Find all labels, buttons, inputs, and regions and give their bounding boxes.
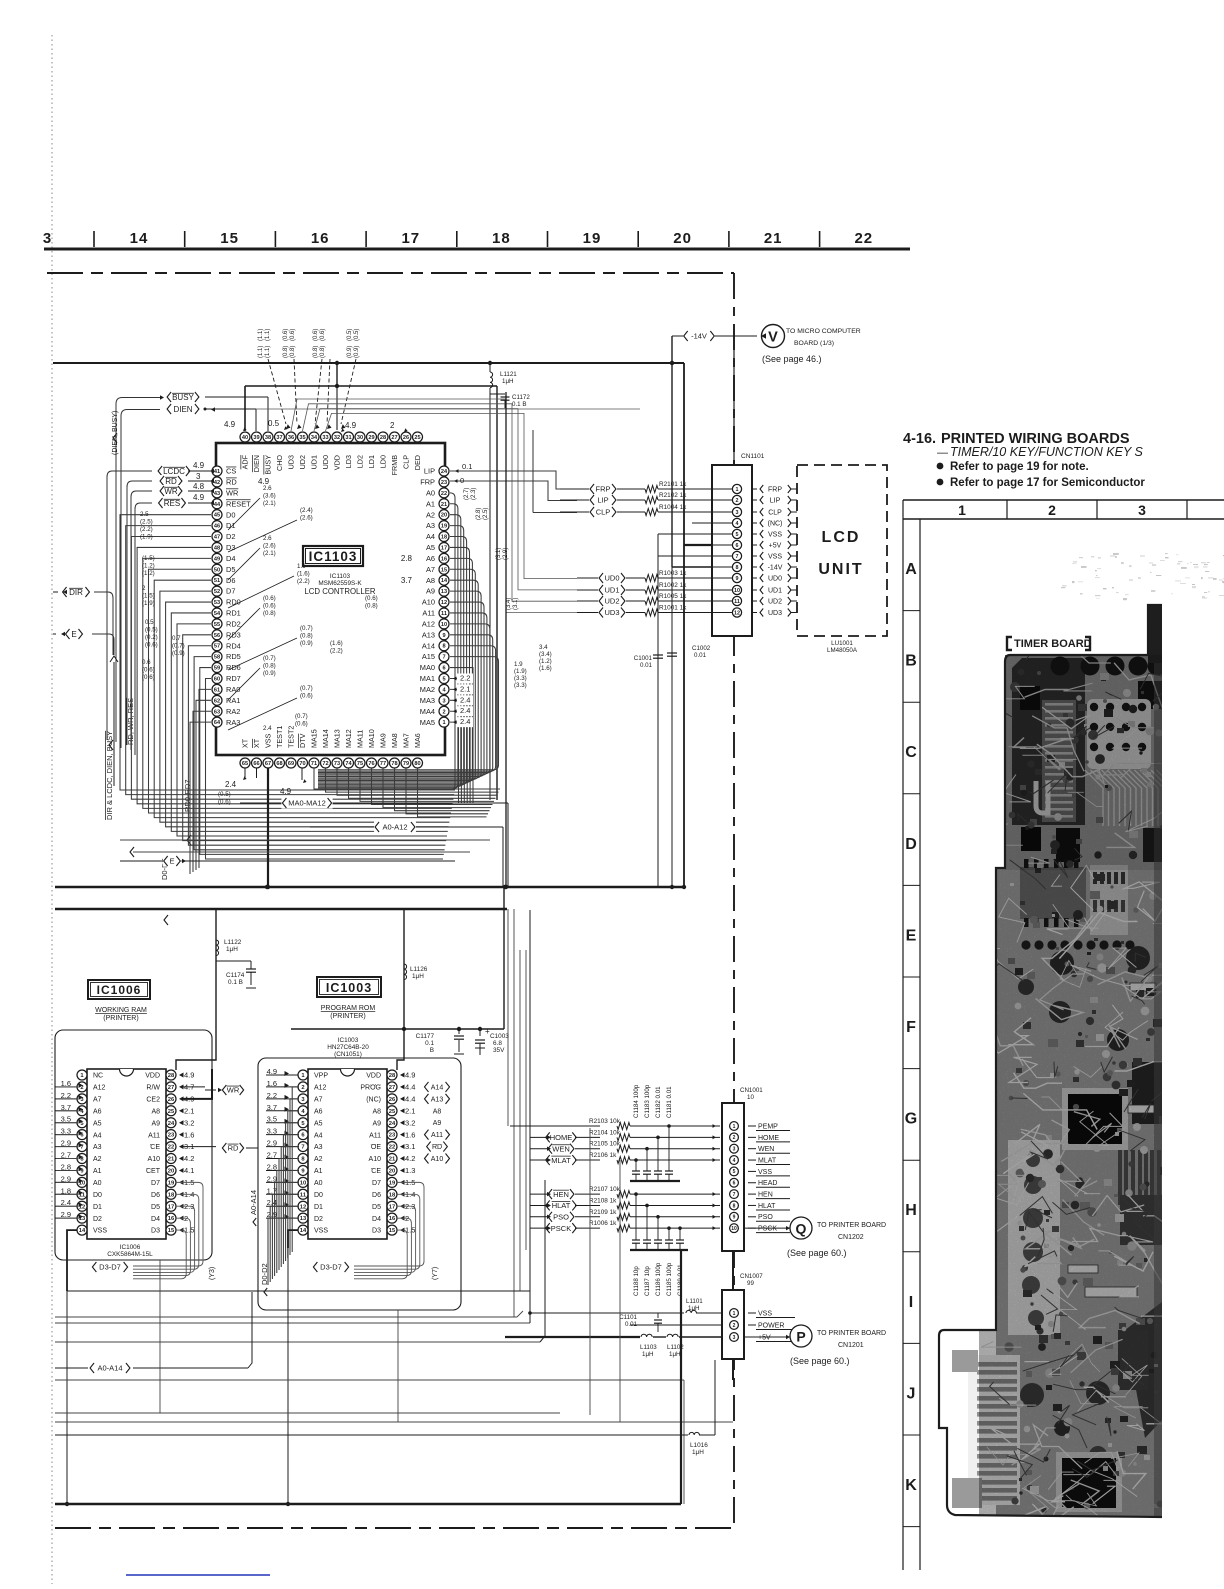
svg-text:UD0: UD0 bbox=[604, 574, 619, 583]
svg-text:3.7: 3.7 bbox=[401, 576, 413, 585]
svg-text:WR: WR bbox=[164, 487, 178, 496]
svg-text:LCD: LCD bbox=[822, 529, 861, 546]
svg-text:ADF: ADF bbox=[241, 454, 250, 469]
svg-text:UD3: UD3 bbox=[604, 608, 619, 617]
svg-text:D4: D4 bbox=[372, 1216, 381, 1223]
svg-text:C1182 0.01: C1182 0.01 bbox=[655, 1086, 662, 1118]
svg-text:MA2: MA2 bbox=[420, 685, 435, 694]
svg-text:PEMP: PEMP bbox=[758, 1123, 778, 1130]
svg-text:21: 21 bbox=[389, 1157, 396, 1163]
svg-text:A7: A7 bbox=[314, 1096, 323, 1103]
svg-text:51: 51 bbox=[214, 578, 220, 584]
svg-text:44: 44 bbox=[214, 502, 221, 508]
svg-text:DED: DED bbox=[413, 455, 422, 470]
svg-text:A6: A6 bbox=[314, 1108, 323, 1115]
svg-text:D3: D3 bbox=[372, 1228, 381, 1235]
svg-text:B: B bbox=[430, 1047, 434, 1054]
svg-text:A0-A14: A0-A14 bbox=[249, 1190, 258, 1215]
svg-text:A7: A7 bbox=[93, 1096, 102, 1103]
svg-text:25: 25 bbox=[168, 1109, 175, 1115]
svg-text:(See page 46.): (See page 46.) bbox=[762, 354, 822, 364]
svg-text:(1.2): (1.2) bbox=[539, 658, 552, 665]
svg-text:(0.6): (0.6) bbox=[295, 721, 308, 728]
svg-text:(2.3): (2.3) bbox=[471, 488, 477, 500]
svg-text:WR: WR bbox=[226, 488, 238, 497]
svg-text:63: 63 bbox=[214, 709, 220, 715]
svg-text:12: 12 bbox=[734, 610, 740, 616]
svg-text:A9: A9 bbox=[433, 1120, 442, 1127]
svg-text:2.6: 2.6 bbox=[263, 485, 272, 492]
svg-text:26: 26 bbox=[389, 1097, 396, 1103]
svg-text:(1.1): (1.1) bbox=[265, 329, 271, 341]
svg-text:0.01: 0.01 bbox=[694, 652, 707, 659]
svg-text:(0.9): (0.9) bbox=[263, 670, 276, 677]
svg-text:D2: D2 bbox=[226, 532, 235, 541]
svg-text:HOME: HOME bbox=[758, 1135, 779, 1142]
svg-text:(0.6): (0.6) bbox=[142, 667, 155, 674]
svg-text:(0.5): (0.5) bbox=[347, 329, 353, 341]
svg-text:A4: A4 bbox=[426, 532, 435, 541]
svg-text:A0: A0 bbox=[426, 488, 435, 497]
svg-text:A14: A14 bbox=[431, 1084, 444, 1091]
svg-text:IC1006: IC1006 bbox=[120, 1244, 141, 1251]
svg-text:(PRINTER): (PRINTER) bbox=[103, 1015, 138, 1022]
svg-text:13: 13 bbox=[441, 589, 447, 595]
svg-text:WORKING RAM: WORKING RAM bbox=[95, 1007, 147, 1014]
svg-text:J: J bbox=[907, 1385, 916, 1402]
svg-text:A5: A5 bbox=[426, 543, 435, 552]
svg-text:27: 27 bbox=[168, 1085, 174, 1091]
svg-text:4.1: 4.1 bbox=[184, 1166, 194, 1175]
svg-text:L1016: L1016 bbox=[690, 1442, 708, 1449]
svg-text:3: 3 bbox=[43, 230, 51, 247]
svg-text:2.2: 2.2 bbox=[460, 673, 470, 682]
svg-text:HN27C64B-20: HN27C64B-20 bbox=[327, 1044, 369, 1051]
svg-text:2: 2 bbox=[733, 1323, 736, 1329]
svg-text:IC1003: IC1003 bbox=[326, 981, 372, 995]
svg-text:A12: A12 bbox=[93, 1085, 106, 1092]
svg-text:RD: RD bbox=[226, 478, 237, 487]
svg-text:1: 1 bbox=[442, 720, 445, 726]
svg-text:3.2: 3.2 bbox=[184, 1118, 194, 1127]
svg-text:D6: D6 bbox=[151, 1192, 160, 1199]
svg-text:PSCK: PSCK bbox=[758, 1226, 777, 1233]
svg-text:4.9: 4.9 bbox=[405, 1071, 415, 1080]
svg-text:NC: NC bbox=[93, 1073, 103, 1080]
svg-text:A5: A5 bbox=[93, 1120, 102, 1127]
svg-text:4.9: 4.9 bbox=[280, 787, 292, 796]
svg-text:CS: CS bbox=[226, 467, 236, 476]
svg-text:14: 14 bbox=[130, 230, 149, 247]
svg-text:HLAT: HLAT bbox=[758, 1203, 776, 1210]
svg-text:A13: A13 bbox=[431, 1096, 444, 1103]
svg-text:22: 22 bbox=[168, 1145, 174, 1151]
svg-text:—: — bbox=[937, 447, 948, 459]
svg-text:PSO: PSO bbox=[553, 1213, 569, 1222]
svg-text:IC1103: IC1103 bbox=[309, 549, 358, 564]
svg-text:(0.8): (0.8) bbox=[365, 603, 378, 610]
svg-text:(0.9): (0.9) bbox=[172, 650, 185, 657]
svg-text:Q: Q bbox=[796, 1221, 807, 1237]
svg-text:LM48050A: LM48050A bbox=[827, 647, 858, 654]
svg-text:R2107 10k: R2107 10k bbox=[589, 1186, 621, 1193]
svg-text:P: P bbox=[796, 1329, 805, 1345]
svg-text:(CN1051): (CN1051) bbox=[334, 1051, 362, 1058]
svg-text:10: 10 bbox=[441, 622, 447, 628]
svg-text:17: 17 bbox=[441, 545, 447, 551]
svg-text:RD5: RD5 bbox=[226, 652, 241, 661]
svg-text:VSS: VSS bbox=[264, 733, 273, 748]
svg-text:A14: A14 bbox=[422, 641, 435, 650]
svg-text:MSM62559S-K: MSM62559S-K bbox=[318, 580, 362, 587]
svg-text:35V: 35V bbox=[493, 1047, 505, 1054]
svg-text:2.4: 2.4 bbox=[225, 780, 237, 789]
svg-text:CE: CE bbox=[371, 1168, 381, 1175]
svg-text:(3.4): (3.4) bbox=[539, 651, 552, 658]
svg-text:L1121: L1121 bbox=[500, 371, 517, 378]
svg-text:(0.9): (0.9) bbox=[354, 346, 360, 358]
svg-text:(0.6): (0.6) bbox=[290, 329, 296, 341]
svg-text:LIP: LIP bbox=[770, 498, 781, 505]
svg-text:2: 2 bbox=[442, 709, 445, 715]
svg-text:10: 10 bbox=[747, 1094, 754, 1101]
svg-text:(0.8): (0.8) bbox=[320, 346, 326, 358]
svg-text:18: 18 bbox=[492, 230, 511, 247]
svg-text:C1185 100p: C1185 100p bbox=[666, 1262, 673, 1296]
svg-text:8: 8 bbox=[736, 565, 739, 571]
svg-text:R2102 1k: R2102 1k bbox=[659, 492, 687, 499]
svg-text:MA3: MA3 bbox=[420, 696, 435, 705]
svg-text:4.9: 4.9 bbox=[224, 420, 236, 429]
svg-text:A11: A11 bbox=[422, 609, 435, 618]
svg-text:A8: A8 bbox=[372, 1108, 381, 1115]
svg-text:CET: CET bbox=[146, 1168, 161, 1175]
svg-text:0.7: 0.7 bbox=[172, 635, 181, 642]
svg-text:0.1: 0.1 bbox=[462, 462, 472, 471]
svg-text:42: 42 bbox=[214, 480, 220, 486]
svg-text:BUSY: BUSY bbox=[172, 393, 194, 402]
svg-text:14: 14 bbox=[300, 1228, 307, 1234]
svg-text:(1.9): (1.9) bbox=[140, 534, 153, 541]
svg-text:38: 38 bbox=[265, 435, 271, 441]
svg-text:A8: A8 bbox=[151, 1108, 160, 1115]
svg-text:MA7: MA7 bbox=[402, 733, 411, 748]
svg-text:A1: A1 bbox=[93, 1168, 102, 1175]
svg-text:C1101: C1101 bbox=[619, 1314, 637, 1321]
svg-text:1: 1 bbox=[733, 1124, 736, 1130]
svg-text:A2: A2 bbox=[314, 1156, 323, 1163]
svg-text:R1005 1k: R1005 1k bbox=[659, 593, 687, 600]
svg-text:31: 31 bbox=[345, 435, 351, 441]
svg-text:(1.9): (1.9) bbox=[514, 668, 527, 675]
svg-text:(3.4): (3.4) bbox=[506, 598, 512, 610]
svg-text:VSS: VSS bbox=[758, 1310, 772, 1317]
svg-text:39: 39 bbox=[253, 435, 259, 441]
svg-text:1.3: 1.3 bbox=[405, 1166, 415, 1175]
svg-text:21: 21 bbox=[441, 502, 447, 508]
svg-text:77: 77 bbox=[380, 761, 386, 767]
svg-text:MA5: MA5 bbox=[420, 718, 435, 727]
svg-text:TIMER/10 KEY/FUNCTION KEY S: TIMER/10 KEY/FUNCTION KEY S bbox=[950, 445, 1144, 459]
svg-text:RD4: RD4 bbox=[226, 641, 241, 650]
svg-text:1μH: 1μH bbox=[669, 1351, 680, 1358]
svg-text:23: 23 bbox=[168, 1133, 175, 1139]
svg-text:MA14: MA14 bbox=[321, 729, 330, 748]
svg-text:A11: A11 bbox=[431, 1132, 443, 1139]
svg-text:(1.5): (1.5) bbox=[142, 593, 155, 600]
svg-text:PROG: PROG bbox=[360, 1085, 381, 1092]
svg-text:5: 5 bbox=[736, 532, 739, 538]
svg-text:14: 14 bbox=[441, 578, 448, 584]
svg-text:D1: D1 bbox=[93, 1204, 102, 1211]
svg-text:D7: D7 bbox=[151, 1180, 160, 1187]
svg-text:L1101: L1101 bbox=[686, 1298, 703, 1305]
svg-text:(0.6): (0.6) bbox=[300, 693, 313, 700]
svg-text:(Y7): (Y7) bbox=[432, 1267, 439, 1280]
svg-text:2: 2 bbox=[301, 1085, 304, 1091]
svg-text:(0.7): (0.7) bbox=[295, 713, 308, 720]
svg-text:75: 75 bbox=[357, 761, 363, 767]
svg-text:1μH: 1μH bbox=[226, 946, 238, 953]
svg-text:2.8: 2.8 bbox=[401, 554, 413, 563]
svg-text:D1: D1 bbox=[226, 521, 235, 530]
svg-text:7: 7 bbox=[301, 1145, 304, 1151]
svg-text:TO PRINTER BOARD: TO PRINTER BOARD bbox=[817, 1330, 886, 1337]
svg-text:D0: D0 bbox=[226, 510, 235, 519]
svg-text:G: G bbox=[905, 1111, 917, 1128]
svg-text:9: 9 bbox=[733, 1215, 736, 1221]
svg-text:TO MICRO COMPUTER: TO MICRO COMPUTER bbox=[786, 328, 861, 335]
svg-text:(3.6): (3.6) bbox=[263, 493, 276, 500]
svg-text:D0: D0 bbox=[314, 1192, 323, 1199]
svg-text:VDD: VDD bbox=[366, 1073, 381, 1080]
svg-text:(0.6): (0.6) bbox=[313, 329, 319, 341]
svg-text:F: F bbox=[906, 1019, 916, 1036]
svg-text:7: 7 bbox=[736, 554, 739, 560]
svg-text:RESET: RESET bbox=[226, 499, 251, 508]
svg-text:(2.6): (2.6) bbox=[300, 515, 313, 522]
svg-text:3.1: 3.1 bbox=[405, 1142, 415, 1151]
svg-text:D2: D2 bbox=[314, 1216, 323, 1223]
svg-text:LD2: LD2 bbox=[356, 455, 365, 468]
svg-text:BOARD (1/3): BOARD (1/3) bbox=[794, 340, 834, 347]
svg-text:C1181 0.01: C1181 0.01 bbox=[666, 1086, 673, 1118]
svg-text:45: 45 bbox=[214, 513, 220, 519]
svg-text:4.8: 4.8 bbox=[193, 482, 205, 491]
svg-text:20: 20 bbox=[441, 513, 447, 519]
svg-text:POWER: POWER bbox=[758, 1322, 784, 1329]
svg-text:R2104 10k: R2104 10k bbox=[589, 1129, 621, 1136]
svg-text:A0-A12: A0-A12 bbox=[382, 823, 407, 832]
svg-text:(2.1): (2.1) bbox=[263, 550, 276, 557]
svg-text:19: 19 bbox=[389, 1180, 396, 1186]
svg-text:+5V: +5V bbox=[769, 543, 782, 550]
svg-text:VSS: VSS bbox=[93, 1228, 107, 1235]
svg-text:71: 71 bbox=[311, 761, 317, 767]
svg-text:(1.2): (1.2) bbox=[142, 570, 155, 577]
svg-text:MA0: MA0 bbox=[420, 663, 435, 672]
svg-text:18: 18 bbox=[441, 535, 447, 541]
svg-text:LIP: LIP bbox=[597, 496, 608, 505]
svg-text:(0.6): (0.6) bbox=[263, 595, 276, 602]
svg-text:(0.5): (0.5) bbox=[354, 329, 360, 341]
svg-text:CN1001: CN1001 bbox=[740, 1087, 763, 1094]
svg-text:(1.5): (1.5) bbox=[142, 555, 155, 562]
svg-text:4.9: 4.9 bbox=[184, 1071, 194, 1080]
svg-text:20: 20 bbox=[389, 1169, 395, 1175]
svg-text:CN1101: CN1101 bbox=[741, 453, 765, 460]
svg-text:6: 6 bbox=[442, 666, 445, 672]
svg-text:UD3: UD3 bbox=[287, 455, 296, 469]
svg-text:21: 21 bbox=[764, 230, 783, 247]
svg-text:66: 66 bbox=[253, 761, 259, 767]
svg-text:TO PRINTER BOARD: TO PRINTER BOARD bbox=[817, 1222, 886, 1229]
svg-text:3: 3 bbox=[733, 1335, 736, 1341]
svg-text:33: 33 bbox=[322, 435, 328, 441]
svg-text:72: 72 bbox=[322, 761, 328, 767]
svg-text:C1186 100p: C1186 100p bbox=[655, 1262, 662, 1296]
svg-text:B: B bbox=[905, 653, 917, 670]
svg-text:73: 73 bbox=[334, 761, 340, 767]
svg-text:A9: A9 bbox=[151, 1120, 160, 1127]
svg-text:Refer to page 19 for note.: Refer to page 19 for note. bbox=[950, 461, 1089, 473]
svg-text:(1.6): (1.6) bbox=[330, 640, 343, 647]
svg-text:K: K bbox=[905, 1477, 917, 1494]
svg-text:(1.6): (1.6) bbox=[297, 571, 310, 578]
svg-text:27: 27 bbox=[389, 1085, 395, 1091]
svg-text:0.1 B: 0.1 B bbox=[228, 979, 243, 986]
svg-text:9: 9 bbox=[442, 633, 445, 639]
svg-text:D3-D7: D3-D7 bbox=[99, 1263, 121, 1272]
svg-text:R2101 1k: R2101 1k bbox=[659, 481, 687, 488]
svg-text:17: 17 bbox=[168, 1204, 174, 1210]
svg-text:R2108 1k: R2108 1k bbox=[589, 1197, 617, 1204]
svg-text:1μH: 1μH bbox=[692, 1449, 704, 1456]
svg-text:(Y3): (Y3) bbox=[209, 1267, 216, 1280]
svg-text:D5: D5 bbox=[151, 1204, 160, 1211]
svg-text:30: 30 bbox=[357, 435, 363, 441]
svg-text:(1.1): (1.1) bbox=[258, 329, 264, 341]
svg-text:A10: A10 bbox=[369, 1156, 382, 1163]
svg-text:UD2: UD2 bbox=[604, 597, 619, 606]
svg-text:A12: A12 bbox=[422, 619, 435, 628]
svg-text:HEN: HEN bbox=[553, 1190, 569, 1199]
svg-text:2.6: 2.6 bbox=[263, 535, 272, 542]
svg-text:LD3: LD3 bbox=[344, 455, 353, 468]
svg-text:37: 37 bbox=[276, 435, 282, 441]
svg-text:7: 7 bbox=[442, 655, 445, 661]
svg-text:DIEN: DIEN bbox=[252, 455, 261, 472]
svg-text:3: 3 bbox=[736, 510, 739, 516]
svg-text:R1002 1k: R1002 1k bbox=[659, 582, 687, 589]
svg-text:MA1: MA1 bbox=[420, 674, 435, 683]
svg-text:(1.2): (1.2) bbox=[142, 563, 155, 570]
svg-text:2.4: 2.4 bbox=[460, 706, 470, 715]
svg-text:D3: D3 bbox=[151, 1228, 160, 1235]
svg-text:D5: D5 bbox=[226, 565, 235, 574]
svg-text:(2.1): (2.1) bbox=[263, 500, 276, 507]
svg-text:60: 60 bbox=[214, 676, 220, 682]
svg-text:(2.2): (2.2) bbox=[330, 648, 343, 655]
svg-text:80: 80 bbox=[414, 761, 420, 767]
svg-text:RA1: RA1 bbox=[226, 696, 240, 705]
svg-text:10: 10 bbox=[734, 588, 740, 594]
svg-text:A13: A13 bbox=[422, 630, 435, 639]
svg-text:3: 3 bbox=[442, 698, 445, 704]
svg-text:MA9: MA9 bbox=[379, 733, 388, 748]
svg-text:C1002: C1002 bbox=[692, 645, 711, 652]
svg-text:18: 18 bbox=[168, 1192, 175, 1198]
svg-text:C: C bbox=[905, 744, 917, 761]
svg-text:6.8: 6.8 bbox=[493, 1040, 502, 1047]
svg-text:15: 15 bbox=[168, 1228, 175, 1234]
svg-text:HEN: HEN bbox=[758, 1192, 773, 1199]
svg-text:UD1: UD1 bbox=[310, 455, 319, 469]
svg-text:A10: A10 bbox=[422, 598, 435, 607]
svg-text:3: 3 bbox=[196, 472, 201, 481]
svg-text:DTV: DTV bbox=[298, 733, 307, 748]
svg-text:IC1006: IC1006 bbox=[97, 983, 142, 997]
svg-text:27: 27 bbox=[391, 435, 397, 441]
svg-text:(0.6): (0.6) bbox=[145, 642, 158, 649]
svg-text:RD: RD bbox=[165, 477, 177, 486]
svg-text:15: 15 bbox=[389, 1228, 396, 1234]
svg-text:PSO: PSO bbox=[758, 1214, 773, 1221]
svg-text:(3.3): (3.3) bbox=[514, 675, 527, 682]
svg-text:FRP: FRP bbox=[420, 478, 435, 487]
svg-text:3.2: 3.2 bbox=[405, 1118, 415, 1127]
svg-text:(2.2): (2.2) bbox=[140, 526, 153, 533]
svg-text:D4: D4 bbox=[151, 1216, 160, 1223]
svg-text:64: 64 bbox=[214, 720, 221, 726]
svg-text:LD0: LD0 bbox=[379, 455, 388, 468]
svg-text:A3: A3 bbox=[314, 1144, 323, 1151]
svg-text:67: 67 bbox=[265, 761, 271, 767]
svg-text:R2109 1k: R2109 1k bbox=[589, 1209, 617, 1216]
svg-text:D2: D2 bbox=[93, 1216, 102, 1223]
svg-text:RD: RD bbox=[228, 1144, 239, 1153]
svg-text:5: 5 bbox=[733, 1169, 736, 1175]
svg-text:D1: D1 bbox=[314, 1204, 323, 1211]
svg-text:R2106 1k: R2106 1k bbox=[589, 1152, 617, 1159]
svg-text:MA15: MA15 bbox=[310, 729, 319, 748]
svg-text:CN1007: CN1007 bbox=[740, 1273, 763, 1280]
svg-text:2.4: 2.4 bbox=[460, 717, 470, 726]
svg-text:41: 41 bbox=[214, 469, 220, 475]
svg-text:TIMER BOARD: TIMER BOARD bbox=[1014, 638, 1092, 650]
svg-text:(PRINTER): (PRINTER) bbox=[330, 1013, 365, 1020]
svg-text:A10: A10 bbox=[148, 1156, 161, 1163]
svg-text:D7: D7 bbox=[372, 1180, 381, 1187]
svg-text:C1177: C1177 bbox=[416, 1033, 435, 1040]
svg-text:(0.7): (0.7) bbox=[300, 685, 313, 692]
svg-text:(0.6): (0.6) bbox=[320, 329, 326, 341]
svg-text:2.4: 2.4 bbox=[460, 695, 470, 704]
svg-text:BUSY: BUSY bbox=[264, 455, 273, 475]
svg-text:(3.3): (3.3) bbox=[514, 682, 527, 689]
svg-text:UD0: UD0 bbox=[321, 455, 330, 469]
svg-text:3: 3 bbox=[1138, 502, 1146, 518]
svg-text:1μH: 1μH bbox=[688, 1305, 699, 1312]
svg-text:IC1103: IC1103 bbox=[330, 573, 351, 580]
svg-text:1μH: 1μH bbox=[412, 973, 424, 980]
svg-text:70: 70 bbox=[299, 761, 305, 767]
svg-text:74: 74 bbox=[345, 761, 352, 767]
svg-text:R2103 10k: R2103 10k bbox=[589, 1118, 621, 1125]
svg-text:4.4: 4.4 bbox=[405, 1083, 415, 1092]
svg-text:CXK5864M-15L: CXK5864M-15L bbox=[107, 1251, 153, 1258]
svg-text:(0.5): (0.5) bbox=[218, 791, 231, 798]
